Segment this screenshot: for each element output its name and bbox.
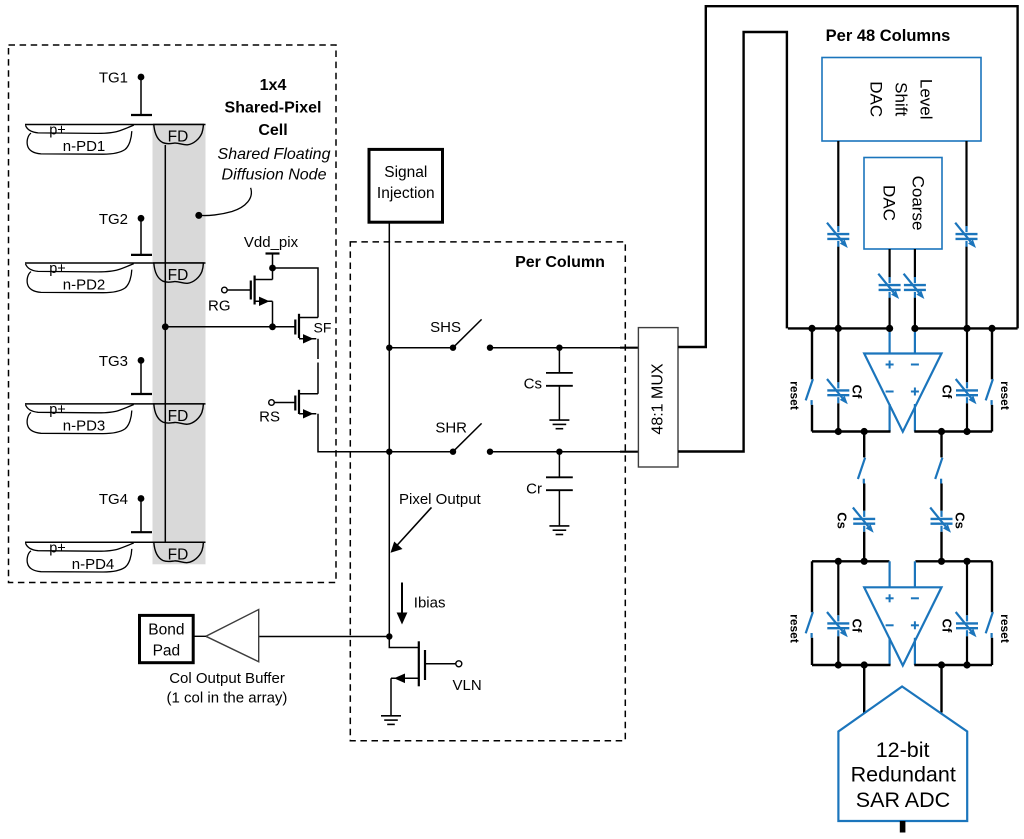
wire reset1 left bottom (811, 405, 813, 432)
wire stage1 bottom bus left (812, 430, 891, 432)
ADC 12-bit Redundant SAR ADC (838, 687, 967, 822)
op-amp U1 (stage1) (864, 354, 941, 432)
svg-text:Cf: Cf (940, 385, 955, 399)
svg-text:n-PD1: n-PD1 (63, 138, 106, 155)
wire ADC input right (940, 665, 942, 713)
floating diffusion FD row 3 (154, 404, 204, 425)
wire Vdd to SF drain (273, 268, 319, 318)
wire Coarse DAC right lead (914, 249, 916, 277)
wire SHS stub at MUX (620, 347, 638, 349)
node SHR junction (386, 449, 392, 455)
variable capacitor Cf (stage1 left) (827, 379, 849, 404)
transistor VLN (389, 637, 481, 716)
wire reset1 left top (811, 328, 813, 379)
node bus1b Cf left (835, 428, 842, 435)
transfer gate TG1 (99, 70, 152, 116)
wire link left upper (863, 432, 865, 458)
svg-text:Bond: Bond (148, 622, 184, 639)
svg-text:Cs: Cs (524, 376, 542, 393)
ADC output stub (900, 821, 906, 833)
arrow Ibias (397, 583, 446, 625)
node bus2b adc right (938, 661, 945, 668)
wire coarse left to bus (888, 298, 890, 329)
label Col Output Buffer (167, 670, 288, 707)
svg-text:Cf: Cf (850, 385, 865, 399)
op-amp U2 (stage2) (864, 587, 941, 665)
node bus1 Cf left (835, 325, 842, 332)
wire Cf2 left top (837, 561, 839, 615)
svg-text:Cf: Cf (850, 619, 865, 633)
wire stage1 top bus left (788, 327, 891, 329)
wire reset1 right bottom (991, 405, 993, 432)
wire stage2 top bus right (915, 560, 992, 562)
svg-text:VLN: VLN (453, 677, 482, 694)
svg-text:12-bit: 12-bit (876, 738, 930, 762)
capacitor Cs (524, 345, 573, 421)
svg-text:Injection: Injection (377, 185, 435, 202)
node RG source / SF gate junction (269, 323, 276, 330)
svg-text:Cr: Cr (526, 481, 542, 498)
wire reset2 left top (811, 561, 813, 612)
wire level shift right to bus (965, 247, 967, 329)
wire Cf1 right top (966, 328, 968, 382)
ground below Cr (549, 526, 569, 535)
wire amp1 out right (914, 404, 916, 432)
48:1 MUX block (638, 328, 678, 467)
wire level shift left to bus (837, 247, 839, 329)
wire amp2 out right (914, 638, 916, 665)
svg-text:1x4: 1x4 (260, 77, 287, 94)
svg-text:p+: p+ (49, 261, 66, 277)
wire link right upper (940, 432, 942, 458)
wire Cf2 right bottom (966, 636, 968, 665)
svg-text:Col Output Buffer: Col Output Buffer (169, 670, 285, 687)
wire stage2 bottom bus left (812, 664, 891, 666)
node bus2 link right (938, 558, 945, 565)
svg-text:p+: p+ (49, 123, 66, 139)
callout curve to shared FD node (195, 188, 251, 219)
wire stage2 bottom bus right (914, 664, 992, 666)
wire RS source to SHR line (318, 414, 389, 452)
supply Vdd_pix (244, 234, 299, 268)
svg-text:reset: reset (998, 381, 1012, 410)
variable capacitor (level shift left) (827, 223, 849, 248)
wire reset2 left bottom (811, 638, 813, 665)
wire link right lower (940, 532, 942, 562)
node bus1b link right (938, 428, 945, 435)
svg-text:DAC: DAC (867, 81, 886, 117)
wire amp2 +in stub (888, 561, 890, 587)
svg-text:n-PD2: n-PD2 (63, 277, 106, 294)
node bus1 Cf right (963, 325, 970, 332)
svg-text:p+: p+ (49, 540, 66, 556)
svg-text:FD: FD (168, 267, 189, 284)
arrow pixel output pointer (391, 507, 432, 552)
svg-text:DAC: DAC (880, 185, 899, 221)
switch reset (stage1 right) (986, 379, 993, 405)
wire amp1 +in stub (888, 328, 890, 353)
1x4 shared-pixel cell dashed box (9, 45, 337, 583)
variable capacitor (coarse left) (878, 274, 900, 299)
node bus2 Cf left (835, 558, 842, 565)
transistor RS (259, 390, 318, 426)
variable capacitor (level shift right) (955, 223, 977, 248)
wire stage1 bottom bus right (914, 430, 992, 432)
buffer triangle (193, 610, 259, 662)
node bus1 reset right (988, 325, 995, 332)
wire amp1 -in stub (914, 328, 916, 353)
variable capacitor Cs (link right) (930, 508, 952, 533)
photodiode n-PD4 (25, 540, 206, 573)
wire Coarse DAC left lead (888, 249, 890, 277)
switch link sample (left) (858, 458, 865, 484)
wire SHS line (389, 347, 638, 349)
svg-text:Pad: Pad (153, 643, 181, 660)
ground VLN (381, 716, 401, 725)
svg-text:Cs: Cs (953, 512, 968, 529)
switch reset (stage2 right) (986, 612, 993, 638)
wire Cf2 left bottom (837, 636, 839, 665)
node Vdd junction (269, 265, 276, 272)
wire Cf2 right top (966, 561, 968, 615)
svg-text:Per Column: Per Column (515, 254, 605, 271)
svg-text:SHR: SHR (435, 420, 467, 437)
switch reset (stage1 left) (806, 379, 813, 405)
wire pixel column line (388, 222, 390, 637)
node bus2b adc left (861, 661, 868, 668)
svg-text:RS: RS (259, 409, 280, 426)
transfer gate TG3 (99, 353, 152, 394)
svg-text:Level: Level (917, 79, 936, 120)
svg-text:SF: SF (314, 320, 332, 336)
ground below Cs (549, 420, 569, 429)
switch link sample (right) (935, 458, 942, 484)
svg-text:Pixel Output: Pixel Output (399, 491, 482, 508)
wire amp1 out left (888, 404, 890, 432)
node SHS junction (386, 345, 392, 351)
svg-text:TG4: TG4 (99, 491, 128, 508)
variable capacitor (coarse right) (904, 274, 926, 299)
svg-text:n-PD3: n-PD3 (63, 417, 106, 434)
wire Level Shift DAC right lead (965, 141, 967, 226)
switch reset (stage2 left) (806, 612, 813, 638)
svg-text:Ibias: Ibias (414, 595, 446, 612)
node bus2 Cf right (963, 558, 970, 565)
node column output junction (386, 633, 392, 639)
svg-text:Vdd_pix: Vdd_pix (244, 234, 299, 251)
svg-text:Redundant: Redundant (851, 762, 956, 786)
wire ADC input left (863, 665, 865, 713)
svg-text:FD: FD (168, 546, 189, 563)
svg-text:SAR ADC: SAR ADC (856, 788, 950, 812)
svg-text:TG3: TG3 (99, 353, 128, 370)
wire reset2 right bottom (991, 638, 993, 665)
variable capacitor Cf (stage2 right) (956, 612, 978, 637)
svg-text:SHS: SHS (430, 319, 461, 336)
wire coarse right to bus (914, 298, 916, 329)
wire stage1 top bus right (914, 327, 1017, 329)
photodiode n-PD2 (25, 261, 206, 294)
wire FD column line (164, 145, 166, 542)
node bus1 amp in right (911, 325, 918, 332)
floating diffusion FD row 2 (154, 263, 204, 284)
transfer gate TG4 (99, 491, 152, 532)
node bus2 link left (861, 558, 868, 565)
wire SHR stub at MUX (620, 451, 638, 453)
node bus2b Cf left (835, 661, 842, 668)
photodiode n-PD1 (25, 123, 206, 156)
wire SF source to RS drain (317, 339, 319, 394)
wire stage2 top bus left (812, 560, 889, 562)
floating diffusion FD row 4 (154, 542, 204, 563)
svg-text:Coarse: Coarse (909, 176, 928, 231)
svg-text:Cf: Cf (940, 619, 955, 633)
svg-text:TG1: TG1 (99, 70, 128, 87)
svg-text:Per 48 Columns: Per 48 Columns (826, 27, 951, 45)
svg-text:(1 col in the array): (1 col in the array) (167, 690, 288, 707)
variable capacitor Cs (link left) (853, 508, 875, 533)
svg-text:TG2: TG2 (99, 211, 128, 228)
wire to output buffer (206, 636, 389, 638)
wire reset1 right top (991, 328, 993, 379)
svg-text:Shared Floating: Shared Floating (218, 146, 331, 163)
wire reset2 right top (991, 561, 993, 612)
svg-text:reset: reset (788, 614, 802, 643)
svg-text:FD: FD (168, 408, 189, 425)
wire link left mid (863, 484, 865, 511)
wire MUX output R (bottom) (678, 32, 787, 452)
transistor SF (295, 314, 331, 344)
floating diffusion FD row 1 (154, 125, 204, 146)
svg-text:reset: reset (788, 381, 802, 410)
svg-text:Shift: Shift (892, 82, 911, 116)
FD shared diffusion gray column (153, 125, 206, 565)
svg-text:FD: FD (168, 129, 189, 146)
transistor RG (208, 268, 273, 327)
svg-text:48:1 MUX: 48:1 MUX (650, 363, 667, 434)
node FD junction (162, 323, 169, 330)
Coarse DAC block (864, 158, 942, 250)
svg-text:Shared-Pixel: Shared-Pixel (225, 100, 322, 117)
wire amp2 -in stub (914, 561, 916, 587)
wire FD node to SF gate (165, 326, 295, 328)
variable capacitor Cf (stage2 left) (827, 612, 849, 637)
wire link left lower (863, 532, 865, 562)
wire link right mid (940, 484, 942, 511)
svg-text:Signal: Signal (384, 164, 427, 181)
wire MUX output S (top) (678, 6, 1018, 347)
wire Cf1 left bottom (837, 403, 839, 431)
node bus1 reset left (808, 325, 815, 332)
bond pad block (140, 615, 194, 662)
svg-text:Diffusion Node: Diffusion Node (222, 167, 327, 184)
cell title 1x4 Shared-Pixel Cell (218, 77, 331, 184)
wire Level Shift DAC left lead (837, 141, 839, 226)
per-column dashed box (350, 242, 625, 741)
photodiode n-PD3 (25, 402, 206, 435)
Level Shift DAC block (822, 58, 981, 142)
wire Cf1 left top (837, 328, 839, 382)
wire Cf1 right bottom (966, 403, 968, 431)
svg-text:p+: p+ (49, 402, 66, 418)
svg-text:Cs: Cs (835, 512, 850, 529)
wire amp2 out left (888, 638, 890, 665)
node bus2b Cf right (963, 661, 970, 668)
transfer gate TG2 (99, 211, 152, 255)
svg-text:reset: reset (998, 614, 1012, 643)
node bus1b link left (861, 428, 868, 435)
wire SHR line (389, 451, 638, 453)
node bus1b Cf right (963, 428, 970, 435)
capacitor Cr (526, 449, 573, 526)
svg-text:Cell: Cell (258, 122, 287, 139)
switch SHR (435, 420, 493, 455)
node bus1 amp in left (886, 325, 893, 332)
svg-text:n-PD4: n-PD4 (72, 556, 115, 573)
svg-text:RG: RG (208, 298, 231, 315)
variable capacitor Cf (stage1 right) (956, 379, 978, 404)
signal injection block (369, 149, 443, 222)
switch SHS (430, 319, 493, 351)
